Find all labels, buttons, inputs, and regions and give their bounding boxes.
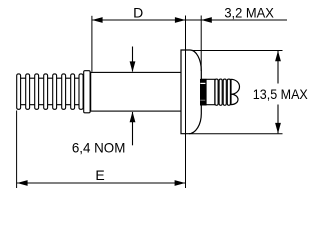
arrow E left	[17, 180, 28, 186]
pin tip (two-lobed end)	[231, 79, 239, 104]
pintail pull grooves (8 ribs)	[17, 74, 83, 109]
arrow down	[275, 123, 281, 134]
band white slit	[200, 82, 205, 84]
svg-text:3,2 MAX: 3,2 MAX	[224, 4, 274, 20]
dimension line D + 3,2 MAX	[92, 19, 287, 21]
pin plain cylinder behind head	[201, 79, 215, 104]
arrow 3,2 outside	[201, 17, 212, 23]
vertical dim line upper	[277, 51, 279, 84]
pin lock collar (black band)	[200, 79, 207, 106]
extension line 3,2 right / head right face	[200, 16, 202, 72]
svg-text:E: E	[95, 167, 104, 183]
collar step	[84, 71, 90, 113]
dimension E: extension line left	[16, 111, 18, 189]
band gray slit	[200, 99, 205, 101]
rivet head (flange)	[181, 50, 201, 134]
vertical dim line lower	[277, 105, 279, 134]
shank body	[91, 72, 182, 111]
arrow E right	[175, 180, 186, 186]
dimension D: extension line left	[91, 16, 93, 72]
dimension line E	[17, 182, 185, 184]
bottom extension line	[189, 133, 283, 135]
dimension 13,5: top extension line	[193, 50, 283, 52]
leader 6,4 lower arrow	[132, 112, 134, 145]
arrow left of D	[92, 17, 103, 23]
svg-text:D: D	[133, 4, 143, 20]
extension line at head face (crosses head, shared by D / 3,2 / E)	[185, 16, 187, 189]
svg-text:13,5 MAX: 13,5 MAX	[253, 86, 309, 102]
arrow up	[275, 51, 281, 62]
svg-text:6,4 NOM: 6,4 NOM	[72, 139, 126, 155]
pin thread ribs (4)	[215, 79, 230, 105]
pintail root cylinder	[17, 78, 84, 105]
leader 6,4 upper arrow	[132, 47, 134, 72]
arrow right of D	[175, 17, 186, 23]
